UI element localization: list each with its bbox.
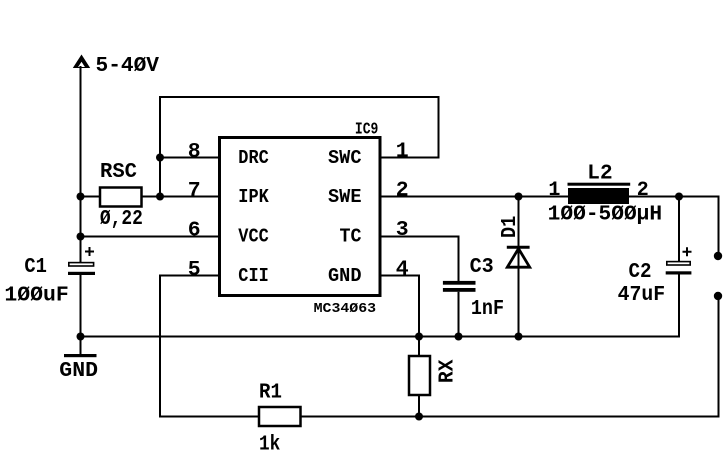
svg-text:1: 1 <box>548 179 560 202</box>
capacitor C1 top plate <box>69 263 94 266</box>
resistor RX body <box>409 356 430 395</box>
svg-text:RSC: RSC <box>100 161 137 184</box>
svg-text:CII: CII <box>238 265 268 287</box>
wire pin 6 row from C1 junction <box>81 236 219 238</box>
svg-text:1: 1 <box>396 140 409 164</box>
wire ground bus <box>81 275 680 337</box>
capacitor C2 bottom plate <box>666 271 692 274</box>
terminal pad output bottom <box>714 292 722 300</box>
wire top feedback loop <box>160 97 439 158</box>
ground symbol bar <box>64 354 97 357</box>
svg-text:C2: C2 <box>629 261 652 284</box>
wire RX bottom to R1 row <box>418 395 420 417</box>
svg-text:3: 3 <box>396 218 409 242</box>
svg-text:IC9: IC9 <box>355 120 379 139</box>
svg-text:MC34Ø63: MC34Ø63 <box>314 301 377 317</box>
svg-text:SWC: SWC <box>328 147 362 169</box>
svg-text:C3: C3 <box>470 256 494 279</box>
wire L2 right to corner and down to pad <box>629 197 719 257</box>
junction bus C3 <box>455 333 463 341</box>
wire left supply rail top <box>80 66 82 262</box>
svg-text:2: 2 <box>637 179 649 202</box>
junction RSC left <box>77 193 85 201</box>
svg-text:GND: GND <box>328 265 362 287</box>
svg-text:1ØØuF: 1ØØuF <box>4 285 68 308</box>
capacitor C1 bottom plate <box>68 272 95 275</box>
svg-text:1ØØ-5ØØµH: 1ØØ-5ØØµH <box>548 203 662 226</box>
wire C2 top lead <box>678 197 680 263</box>
junction bus RX <box>415 333 423 341</box>
svg-text:RX: RX <box>437 359 460 383</box>
supply arrow 5-40V <box>73 55 90 69</box>
wire pin 3 to C3 <box>382 237 459 282</box>
svg-text:Ø,22: Ø,22 <box>100 208 143 231</box>
wire RSC row from rail to resistor <box>81 196 101 198</box>
svg-text:DRC: DRC <box>238 147 268 169</box>
wire pin 5 feedback down and to R1 <box>160 276 259 417</box>
wire D1 bottom lead <box>518 197 520 337</box>
wire SWE pin 2 row to L2 <box>382 196 569 198</box>
inductor L2 body block <box>568 188 629 204</box>
diode D1 triangle <box>507 249 529 268</box>
junction rail bus <box>77 333 85 341</box>
svg-text:TC: TC <box>340 226 362 248</box>
svg-text:L2: L2 <box>587 163 612 186</box>
svg-text:8: 8 <box>188 140 201 164</box>
svg-text:1nF: 1nF <box>471 298 504 321</box>
wire R1 right to right edge and up to pad <box>301 296 719 417</box>
junction pin8 column <box>156 154 164 162</box>
junction R1 row RX bottom <box>415 413 423 421</box>
svg-text:4: 4 <box>396 258 409 282</box>
svg-text:2: 2 <box>396 179 409 203</box>
junction RSC right <box>156 193 164 201</box>
capacitor C1 plus sign <box>85 247 94 256</box>
op-amp IC box MC34063 <box>220 138 381 296</box>
resistor R1 body <box>259 407 301 426</box>
svg-text:5: 5 <box>188 258 201 282</box>
capacitor C3 top plate <box>443 281 476 285</box>
capacitor C2 top plate <box>667 262 690 265</box>
svg-text:R1: R1 <box>259 382 282 405</box>
diode D1 cathode bar <box>507 246 530 249</box>
resistor RSC body <box>100 188 142 207</box>
svg-text:GND: GND <box>59 360 98 383</box>
junction D1 top <box>515 193 523 201</box>
svg-text:6: 6 <box>188 219 201 243</box>
wire C3 bottom to bus <box>458 292 460 337</box>
inductor L2 top thin bar <box>568 183 631 186</box>
svg-text:D1: D1 <box>499 216 522 238</box>
svg-text:1k: 1k <box>259 434 280 452</box>
terminal pad output top <box>714 252 722 260</box>
svg-text:C1: C1 <box>24 256 47 279</box>
svg-text:7: 7 <box>188 179 201 203</box>
svg-text:47uF: 47uF <box>618 284 666 307</box>
wire RSC right to IC pin 7 <box>142 196 219 198</box>
svg-text:5-4ØV: 5-4ØV <box>96 55 160 78</box>
wire pin 8 stub <box>160 157 218 159</box>
wire pin 4 down to RX top <box>382 276 420 357</box>
svg-text:IPK: IPK <box>238 186 269 208</box>
junction bus D1 <box>515 333 523 341</box>
capacitor C3 bottom plate <box>443 288 476 292</box>
junction L2 output / C2 <box>675 193 683 201</box>
svg-text:VCC: VCC <box>238 226 268 248</box>
svg-text:SWE: SWE <box>328 186 362 208</box>
wire vertical junction column x160 pin8 to pin7 <box>159 158 161 197</box>
capacitor C2 plus sign <box>683 247 692 256</box>
junction C1 top / pin6 <box>77 233 85 241</box>
wire left rail below C1 to ground <box>80 275 82 356</box>
